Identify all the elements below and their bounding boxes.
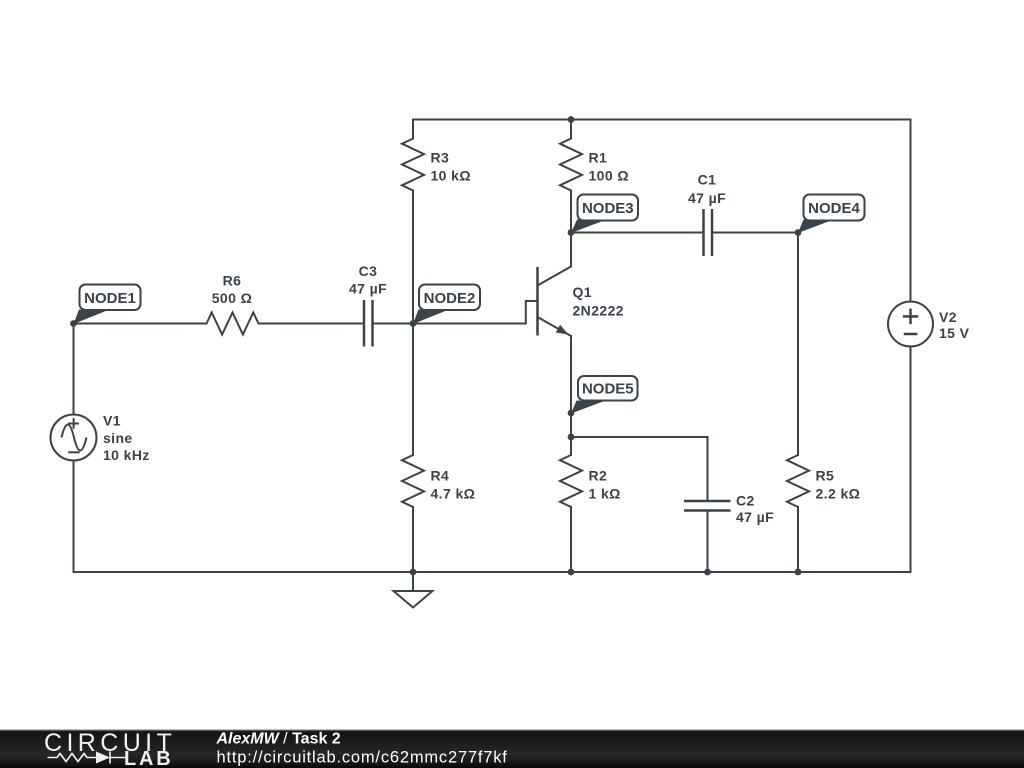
- svg-text:NODE2: NODE2: [424, 290, 476, 307]
- svg-text:R5: R5: [816, 468, 835, 484]
- resistor R5: [787, 455, 860, 507]
- svg-text:1 kΩ: 1 kΩ: [589, 486, 621, 502]
- svg-text:sine: sine: [103, 430, 133, 446]
- junction dot R1 top: [568, 116, 575, 123]
- svg-text:AlexMW / Task 2: AlexMW / Task 2: [216, 731, 341, 748]
- resistor R4: [402, 455, 475, 507]
- voltage source V1: [51, 413, 150, 464]
- wire NODE2 to Q1 base: [413, 301, 537, 324]
- svg-text:47 µF: 47 µF: [349, 281, 387, 297]
- capacitor C1: [688, 172, 726, 256]
- junction dot ground: [410, 569, 417, 576]
- wire NODE2 to R4: [412, 324, 414, 456]
- transistor Q1: [538, 267, 624, 337]
- capacitor C2: [684, 493, 774, 525]
- wire right rail upper (to V2 plus): [910, 120, 912, 302]
- wire NODE1 to R6: [74, 323, 207, 325]
- svg-text:10 kΩ: 10 kΩ: [431, 167, 471, 183]
- wire R3 bottom lead to NODE2: [412, 191, 414, 324]
- svg-text:Q1: Q1: [573, 284, 592, 300]
- svg-text:V1: V1: [103, 413, 121, 429]
- junction dot NODE1: [70, 320, 77, 327]
- resistor R6: [207, 273, 259, 335]
- wire C2 to bottom rail: [707, 511, 709, 573]
- wire bottom rail: [74, 571, 911, 573]
- svg-text:NODE1: NODE1: [84, 290, 136, 307]
- wire R5 to bottom rail: [797, 507, 799, 572]
- wire R1 top lead: [570, 120, 572, 139]
- junction dot NODE2: [410, 320, 417, 327]
- svg-text:http://circuitlab.com/c62mmc27: http://circuitlab.com/c62mmc277f7kf: [217, 749, 508, 767]
- svg-text:C2: C2: [736, 493, 755, 509]
- svg-text:R6: R6: [223, 273, 242, 289]
- wire R6 to C3: [259, 323, 365, 325]
- junction dot NODE3: [568, 229, 575, 236]
- node NODE3: [571, 195, 638, 234]
- wire left rail lower (V1 to bottom rail): [73, 461, 75, 573]
- wire R1 bottom lead to NODE3: [570, 191, 572, 233]
- svg-text:R1: R1: [589, 149, 608, 165]
- svg-text:R4: R4: [431, 468, 450, 484]
- wire top rail: [413, 119, 911, 121]
- junction dot R5 bottom: [795, 569, 802, 576]
- junction dot C2 bottom: [704, 569, 711, 576]
- wire NODE4 to R5: [797, 233, 799, 456]
- node NODE2: [413, 285, 480, 325]
- junction dot NODE5: [568, 410, 575, 417]
- svg-text:R3: R3: [431, 149, 450, 165]
- wire C1 to NODE4: [712, 232, 798, 234]
- svg-text:NODE4: NODE4: [808, 200, 860, 217]
- wire NODE3 to C1: [571, 232, 704, 234]
- svg-text:NODE5: NODE5: [582, 381, 634, 398]
- ground: [394, 572, 433, 608]
- svg-text:2N2222: 2N2222: [573, 303, 624, 319]
- resistor R3: [402, 139, 471, 191]
- svg-text:LAB: LAB: [124, 748, 174, 768]
- node NODE5: [571, 376, 638, 414]
- footer bar: [0, 730, 1024, 768]
- svg-text:47 µF: 47 µF: [688, 190, 726, 206]
- wire branch to C2: [571, 437, 708, 501]
- wire R4 to bottom rail: [412, 507, 414, 572]
- svg-text:NODE3: NODE3: [582, 200, 634, 217]
- wire left rail upper (NODE1 to V1): [73, 324, 75, 415]
- svg-text:100 Ω: 100 Ω: [589, 167, 629, 183]
- wire R2 to bottom rail: [570, 507, 572, 572]
- svg-text:C3: C3: [359, 263, 378, 279]
- wire C3 to NODE2: [373, 323, 414, 325]
- svg-text:10 kHz: 10 kHz: [103, 447, 150, 463]
- logo doodle (resistor + diode): [48, 752, 127, 764]
- junction dot emitter branch: [568, 434, 575, 441]
- wire Q1 emitter through NODE5 to R2: [570, 336, 572, 455]
- node NODE1: [74, 285, 141, 325]
- svg-text:C1: C1: [698, 172, 717, 188]
- svg-text:15 V: 15 V: [939, 325, 970, 341]
- svg-text:500 Ω: 500 Ω: [212, 290, 252, 306]
- node NODE4: [798, 195, 865, 234]
- svg-text:R2: R2: [589, 468, 608, 484]
- wire right rail lower (V2 minus to bottom rail): [910, 347, 912, 573]
- resistor R2: [560, 455, 621, 507]
- junction dot R2 bottom: [568, 569, 575, 576]
- svg-text:2.2 kΩ: 2.2 kΩ: [816, 486, 861, 502]
- svg-text:V2: V2: [939, 309, 957, 325]
- svg-text:4.7 kΩ: 4.7 kΩ: [431, 486, 476, 502]
- junction dot NODE4: [795, 229, 802, 236]
- wire R3 top lead: [412, 120, 414, 139]
- svg-text:47 µF: 47 µF: [736, 509, 774, 525]
- wire Q1 collector to NODE3: [570, 233, 572, 267]
- capacitor C3: [349, 263, 387, 347]
- resistor R1: [560, 139, 629, 191]
- voltage source V2: [888, 302, 970, 347]
- logo diode triangle: [96, 752, 110, 764]
